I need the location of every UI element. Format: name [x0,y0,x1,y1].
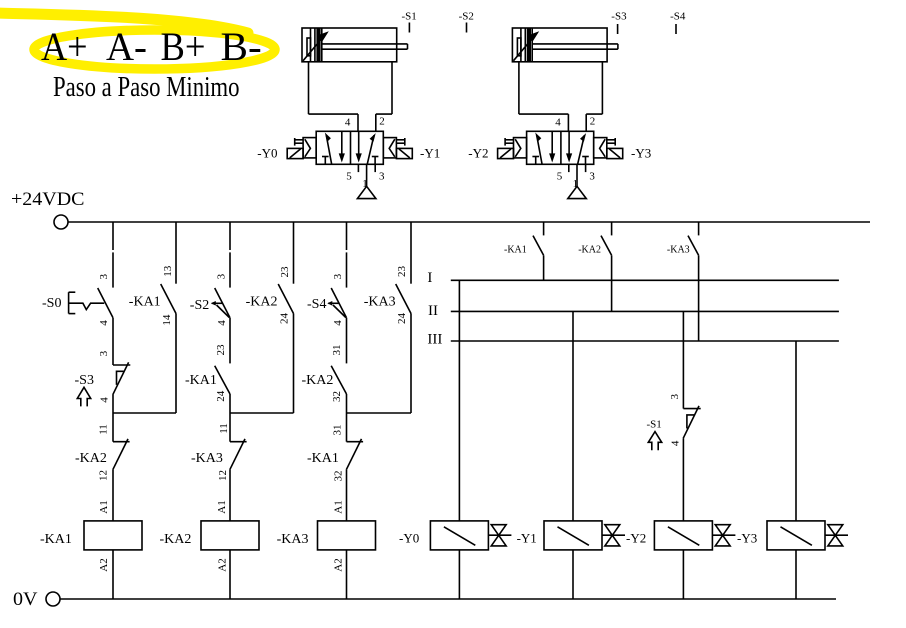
valve right cell blocked port T [582,156,589,158]
cushioning arrow [513,34,536,61]
tube cylinder left port to valve port 4 [518,62,520,114]
pneumatic symbol beside -Y2 [715,525,730,546]
svg-text:III: III [427,332,442,348]
wire col6 upper [410,222,412,284]
svg-text:-S2: -S2 [459,11,474,23]
wire bus I to Y0 [458,280,460,521]
wire col4 upper [293,222,295,284]
svg-text:-KA2: -KA2 [302,373,334,388]
svg-text:-Y0: -Y0 [399,531,419,546]
svg-text:4: 4 [98,320,110,326]
left solenoid pins [505,139,513,141]
arrow actuated symbol for -S1 [648,432,661,451]
svg-text:23: 23 [396,266,408,278]
wire -Y1 to 0V rail [572,550,574,599]
svg-text:-KA1: -KA1 [307,451,339,466]
svg-text:3: 3 [379,171,385,183]
wire col3 between KA1 and KA3 NC [229,394,231,442]
svg-text:-Y3: -Y3 [631,146,651,161]
right solenoid coil box [396,148,412,158]
svg-text:23: 23 [215,344,227,356]
NO contact -KA3 right section [698,222,700,235]
tube cylinder left port to valve port 4 [308,62,310,114]
svg-text:32: 32 [332,471,344,482]
svg-text:A2: A2 [98,558,110,571]
junction rung1 parallel branch [113,412,176,414]
wire -Y0 to 0V rail [458,550,460,599]
svg-text:A+: A+ [41,24,88,69]
svg-text:II: II [428,303,438,319]
left solenoid pins [295,139,303,141]
svg-text:24: 24 [215,390,227,402]
wire col3 between S2 and KA1 [229,318,231,364]
solenoid coil -Y1 [544,521,602,550]
svg-text:A1: A1 [333,500,345,513]
svg-text:A1: A1 [98,500,110,513]
limit switch -S2 lever [212,302,223,304]
svg-text:3: 3 [669,394,681,400]
NC contact -KA1 31/32 [347,441,364,443]
svg-text:3: 3 [589,171,595,183]
valve right cell exhaust arrow [568,131,570,154]
relay coil -KA3 [318,521,376,550]
valve 5/2 body [527,131,594,164]
right pilot [383,138,396,158]
+24VDC rail [68,221,870,223]
cylinder A with valve Y0/Y1 [287,28,412,199]
svg-text:-S3: -S3 [611,11,627,23]
svg-text:11: 11 [98,424,110,435]
relay coil -KA1 [84,521,142,550]
svg-text:-KA3: -KA3 [191,451,223,466]
wire col1 upper [112,222,114,250]
cushioning arrow [303,34,326,61]
wire bus II to Y1 [572,311,574,521]
wire col6 lower [410,314,412,414]
wire col1 to coil KA1 [112,470,114,521]
wire col3 upper [229,222,231,250]
wire col5 between S4 and KA2 [346,318,348,364]
wire col2 lower [175,314,177,414]
valve right cell flow arrow [578,135,585,164]
svg-text:4: 4 [99,397,111,403]
wire col2 upper [175,222,177,284]
pneumatic symbol beside -Y3 [828,525,843,546]
limit switch -S4 lever [328,302,339,304]
svg-text:11: 11 [218,423,230,434]
exhaust silencer triangle [568,186,587,198]
step bus I [451,279,839,281]
NO contact -KA2 right section [611,222,613,235]
svg-text:-Y2: -Y2 [468,146,488,161]
0V rail [61,598,837,600]
svg-text:32: 32 [331,391,343,402]
svg-text:5: 5 [557,170,563,182]
NO contact -KA1 23/24 [215,366,230,394]
pneumatic symbol beside -Y0 [491,525,506,546]
NC contact -KA3 11/12 [230,441,247,443]
wire S1 to Y2 [682,438,684,521]
arrow actuated symbol for -S3 [77,387,90,406]
svg-text:-KA3: -KA3 [277,532,309,547]
svg-text:12: 12 [217,470,229,481]
NO contact -KA2 31/32 [331,366,346,394]
svg-text:-Y2: -Y2 [626,531,646,546]
solenoid coil -Y3 [767,521,825,550]
svg-text:3: 3 [332,273,344,279]
svg-text:A-: A- [106,24,147,69]
valve left cell exhaust arrow [341,131,343,154]
left solenoid coil box [498,148,514,158]
svg-text:31: 31 [332,425,344,436]
wire col4 lower [293,314,295,414]
svg-text:3: 3 [98,274,110,280]
svg-text:3: 3 [216,273,228,279]
tube cylinder right port to valve port 2 [391,62,393,114]
NO contact -KA2 23/24 [278,284,293,314]
svg-text:-S2: -S2 [190,298,209,313]
svg-text:31: 31 [331,345,343,356]
valve left cell flow arrow [326,135,331,164]
cylinder body [302,28,397,62]
cylinder piston [310,28,312,62]
svg-text:A2: A2 [333,558,345,571]
limit switch contact -S1 [683,408,700,410]
svg-text:-KA3: -KA3 [667,245,690,256]
svg-text:-KA1: -KA1 [185,373,217,388]
pneumatic symbol beside -Y1 [605,525,620,546]
NO contact -KA1 13/14 [161,284,176,314]
wire col3 coil to 0V rail [229,550,231,599]
svg-text:A2: A2 [216,558,228,571]
svg-text:1: 1 [362,178,368,190]
svg-text:-KA1: -KA1 [504,245,527,256]
exhaust silencer triangle [357,186,376,198]
svg-text:2: 2 [379,116,385,128]
step bus II [451,310,839,312]
svg-text:-Y1: -Y1 [517,531,537,546]
wire col5 upper [346,222,348,250]
svg-text:+24VDC: +24VDC [11,189,85,210]
svg-text:Paso a Paso Minimo: Paso a Paso Minimo [53,72,240,103]
valve left cell flow arrow [537,135,542,164]
right solenoid pins [396,139,404,141]
solenoid coil -Y2 [654,521,712,550]
wire -Y2 to 0V rail [682,550,684,599]
svg-text:A1: A1 [216,500,228,513]
svg-text:24: 24 [396,313,408,325]
svg-text:-Y1: -Y1 [420,146,440,161]
right solenoid coil box [607,148,623,158]
svg-text:-S1: -S1 [402,11,417,23]
svg-text:4: 4 [555,117,561,129]
svg-text:I: I [427,270,432,286]
svg-text:3: 3 [98,350,110,356]
tube cylinder right port to valve port 2 [601,62,603,114]
svg-text:-S3: -S3 [75,373,94,388]
relay coil -KA2 [201,521,259,550]
wire col1 between S3 and KA2 NC [112,395,114,442]
piston rod [532,43,618,45]
svg-text:-S4: -S4 [307,297,326,312]
svg-text:24: 24 [279,313,291,325]
0V terminal [46,592,60,606]
valve right cell flow arrow [367,135,374,164]
wire col1 between S0 and S3 [112,318,114,365]
right solenoid pins [607,139,615,141]
limit switch contact -S3 [113,364,130,366]
NC contact -KA2 11/12 [113,441,130,443]
svg-text:23: 23 [279,266,291,278]
svg-text:-S0: -S0 [42,296,61,311]
svg-text:4: 4 [216,320,228,326]
valve right cell blocked port T [372,156,379,158]
svg-text:-KA2: -KA2 [246,295,278,310]
wire col3 to coil KA2 [229,470,231,521]
left pilot [514,138,527,158]
svg-text:5: 5 [346,170,352,182]
svg-text:-S4: -S4 [670,11,686,23]
yellow highlighter loop around sequence text [0,13,275,69]
svg-text:1: 1 [573,178,579,190]
left pilot [303,138,316,158]
svg-text:4: 4 [345,117,351,129]
wire bus III to Y3 [795,341,797,521]
valve 5/2 body [316,131,383,164]
valve left cell blocked port T [322,156,329,158]
valve right cell exhaust arrow [358,131,360,154]
junction rung3 parallel branch [347,412,412,414]
svg-text:0V: 0V [13,589,38,610]
svg-text:4: 4 [669,440,681,446]
valve port stubs 5 1 3 [357,164,359,172]
valve port stubs 5 1 3 [568,164,570,172]
+24VDC terminal [54,215,68,229]
svg-text:-KA1: -KA1 [40,532,72,547]
svg-text:14: 14 [161,314,173,326]
svg-text:-KA3: -KA3 [364,295,396,310]
solenoid coil -Y0 [430,521,488,550]
wire col5 to coil KA3 [346,470,348,521]
svg-text:-KA2: -KA2 [160,532,192,547]
svg-text:13: 13 [162,265,174,277]
svg-text:-S1: -S1 [647,419,662,431]
valve left cell blocked port T [532,156,539,158]
svg-text:2: 2 [590,116,596,128]
wire col5 coil to 0V rail [346,550,348,599]
wire bus II to S1 [682,311,684,408]
wire -Y3 to 0V rail [795,550,797,599]
wire col1 coil to 0V rail [112,550,114,599]
svg-text:4: 4 [332,320,344,326]
svg-text:-KA1: -KA1 [129,295,161,310]
left solenoid coil box [287,148,303,158]
svg-text:-KA2: -KA2 [75,451,107,466]
svg-text:12: 12 [97,470,109,481]
svg-text:B+: B+ [161,24,206,69]
junction rung2 parallel branch [230,412,294,414]
NO contact -KA3 23/24 [396,284,411,314]
svg-text:-Y0: -Y0 [257,146,277,161]
right pilot [594,138,607,158]
NO contact -KA1 right section [543,222,545,235]
cylinder B with valve Y2/Y3 [498,28,623,199]
pushbutton -S0 actuator [68,292,70,313]
piston rod [322,43,408,45]
step bus III [451,340,839,342]
cylinder body [512,28,607,62]
wire col5 between KA2 and KA1 NC [346,394,348,442]
cylinder piston [520,28,522,62]
svg-text:B-: B- [221,24,262,69]
svg-text:-KA2: -KA2 [578,245,601,256]
svg-text:-Y3: -Y3 [737,531,757,546]
valve left cell exhaust arrow [551,131,553,154]
